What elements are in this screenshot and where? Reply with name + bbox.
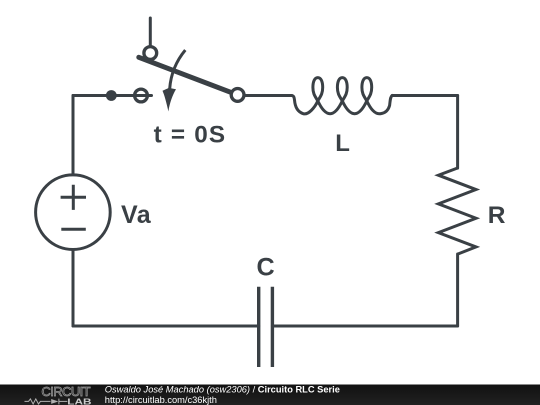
resistor R zigzag <box>438 168 476 254</box>
wire left vertical lower <box>72 250 75 327</box>
wire bottom right <box>272 325 457 328</box>
wire switch top stub <box>149 18 152 45</box>
svg-text:http://circuitlab.com/c36kjth: http://circuitlab.com/c36kjth <box>105 395 217 405</box>
svg-text:L: L <box>335 130 350 157</box>
svg-text:R: R <box>488 202 506 229</box>
wire top-left horizontal through left terminal <box>73 94 152 97</box>
switch SW1 <box>135 47 244 102</box>
svg-text:LAB: LAB <box>67 397 91 405</box>
capacitor C plates <box>259 287 273 367</box>
svg-text:Va: Va <box>121 201 152 229</box>
switch left terminal circle <box>135 89 148 102</box>
svg-text:t = 0S: t = 0S <box>154 121 227 148</box>
switch top terminal circle <box>144 47 157 60</box>
switch arrow head <box>163 88 177 112</box>
source circle <box>36 175 111 250</box>
switch actuation arc arrow shaft <box>170 50 186 89</box>
minus sign <box>61 228 86 231</box>
svg-text:Oswaldo José Machado (osw2306): Oswaldo José Machado (osw2306) / Circuit… <box>105 385 340 395</box>
logo diode triangle <box>51 399 58 404</box>
voltage source Va <box>36 175 111 250</box>
wire bottom left <box>73 325 259 328</box>
capacitor right plate <box>271 287 274 367</box>
plus sign <box>61 185 86 210</box>
wire right vertical lower <box>456 254 459 326</box>
switch blade <box>139 57 230 92</box>
svg-text:C: C <box>257 253 275 281</box>
inductor L coil <box>291 78 392 114</box>
wire switch to inductor <box>245 94 292 97</box>
CircuitLab logo wire-resistor-diode glyph <box>25 399 68 405</box>
wire right vertical upper <box>456 96 459 169</box>
wire top right horizontal <box>392 94 457 97</box>
capacitor left plate <box>257 287 260 367</box>
node junction dot <box>106 90 117 101</box>
wire left vertical upper <box>72 96 75 175</box>
switch right pivot terminal circle <box>231 89 244 102</box>
